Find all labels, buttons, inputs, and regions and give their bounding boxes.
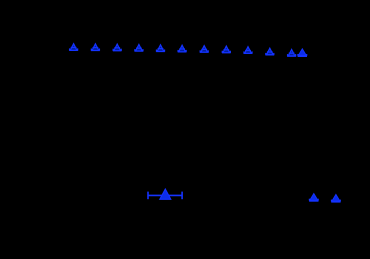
errorbar data point 11: [287, 50, 296, 57]
errorbar data point 2: [91, 44, 99, 51]
errorbar data point 14: [309, 194, 318, 201]
errorbar data point 4: [135, 45, 143, 52]
errorbar data point 10: [266, 48, 274, 55]
errorbar data point 8: [222, 46, 230, 53]
errorbar data point 15: [331, 195, 340, 202]
errorbar data point 13 (long x error bar): [148, 189, 182, 199]
errorbar data point 12 (solid marker): [298, 49, 307, 56]
errorbar data point 6: [178, 45, 186, 52]
errorbar data point 1: [70, 44, 78, 51]
errorbar data point 7: [200, 46, 208, 53]
errorbar data point 3: [113, 44, 121, 51]
errorbar data point 5: [157, 45, 165, 52]
errorbar data point 9: [244, 47, 252, 54]
